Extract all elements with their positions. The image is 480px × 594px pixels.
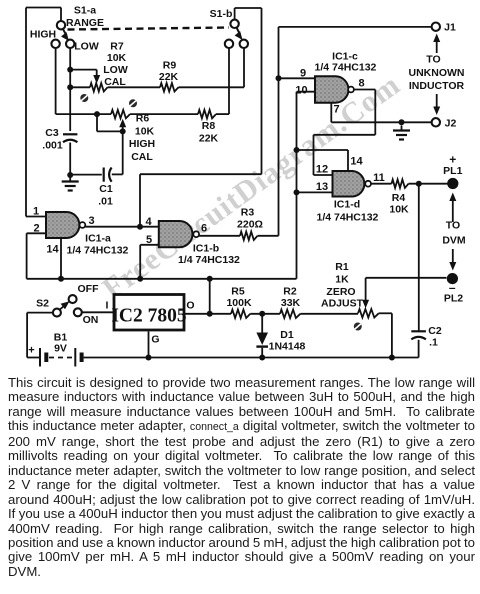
- wire: [314, 90, 376, 176]
- wire: [148, 332, 150, 358]
- wire: [418, 184, 420, 331]
- diode D1: [256, 333, 268, 347]
- label PL1: [443, 165, 462, 177]
- resistor R7: [90, 83, 108, 91]
- svg-text:1/4 74HC132: 1/4 74HC132: [315, 62, 377, 74]
- label R7: [110, 41, 124, 53]
- svg-text:R2: R2: [283, 286, 297, 298]
- R7 wiper: [70, 70, 100, 84]
- pin O label: [186, 300, 194, 312]
- node: [67, 67, 73, 73]
- svg-text:10K: 10K: [135, 126, 155, 138]
- wire: [409, 183, 448, 185]
- wire: [184, 313, 231, 315]
- svg-text:C1: C1: [99, 183, 113, 195]
- label TO UNKNOWN INDUCTOR: [409, 54, 465, 93]
- ground: [62, 177, 79, 191]
- wire ground rail: [85, 357, 418, 359]
- svg-text:OFF: OFF: [78, 283, 100, 295]
- wire: [250, 313, 280, 315]
- label TO DVM: [442, 220, 466, 247]
- svg-text:PL2: PL2: [444, 293, 463, 305]
- svg-text:IC1-b: IC1-b: [193, 243, 219, 255]
- svg-text:J2: J2: [445, 118, 457, 130]
- capacitor C2: [411, 331, 426, 339]
- svg-text:CAL: CAL: [131, 151, 153, 163]
- svg-text:33K: 33K: [281, 297, 301, 309]
- wire: [216, 48, 229, 114]
- svg-text:HIGH: HIGH: [30, 29, 56, 41]
- wire: [209, 279, 211, 314]
- pin G label: [151, 334, 159, 346]
- wire: [139, 245, 141, 279]
- switch S1-b: [230, 20, 242, 40]
- label C2 value: [429, 337, 438, 349]
- svg-text:S2: S2: [36, 298, 49, 310]
- label S1-b: [210, 8, 233, 20]
- R1 wiper: [362, 278, 446, 309]
- label C3: [45, 127, 59, 139]
- label IC1-a: [85, 233, 111, 245]
- node: [137, 276, 143, 282]
- svg-text:1/4 74HC132: 1/4 74HC132: [178, 254, 240, 266]
- label LOW: [74, 41, 99, 53]
- wire: [70, 70, 90, 88]
- label IC1-d: [334, 199, 360, 211]
- node S1-b right contact: [240, 40, 248, 48]
- label R5 value: [226, 297, 252, 309]
- svg-text:8: 8: [358, 78, 364, 90]
- svg-text:IC1-a: IC1-a: [85, 233, 111, 245]
- label J1: [444, 22, 456, 34]
- svg-text:.1: .1: [429, 337, 438, 349]
- svg-text:11: 11: [373, 172, 385, 184]
- svg-text:6: 6: [201, 223, 207, 235]
- svg-text:RANGE: RANGE: [66, 17, 104, 29]
- svg-text:12: 12: [316, 164, 328, 176]
- gate IC1-c: [315, 76, 354, 102]
- pin 1: [26, 206, 46, 218]
- wire: [69, 48, 71, 70]
- regulator IC2 7805: [111, 295, 187, 331]
- node ON contact: [74, 308, 82, 316]
- resistor R1: [358, 309, 379, 317]
- svg-text:ZERO: ZERO: [326, 286, 355, 298]
- trimmer screw R6: [129, 99, 137, 107]
- node OFF contact: [69, 295, 77, 303]
- arrow to J1: [433, 34, 440, 54]
- label J2: [445, 118, 457, 130]
- svg-text:1/4 74HC132: 1/4 74HC132: [67, 245, 129, 257]
- label IC1-a part: [67, 245, 129, 257]
- connector J1: [432, 23, 440, 31]
- svg-text:220Ω: 220Ω: [237, 219, 263, 231]
- label R8 value: [199, 133, 219, 145]
- svg-text:R1: R1: [335, 261, 349, 273]
- terminal PL1: [447, 178, 458, 189]
- svg-text:7: 7: [333, 104, 339, 116]
- gate IC1-a: [46, 212, 85, 238]
- trimmer screw R7: [80, 94, 88, 102]
- svg-text:R6: R6: [136, 113, 150, 125]
- trimmer screw R1: [354, 323, 362, 331]
- pin 8 output: [354, 78, 375, 90]
- node: [58, 276, 64, 282]
- svg-text:14: 14: [46, 244, 59, 256]
- svg-text:LOW: LOW: [74, 41, 99, 53]
- svg-text:TO: TO: [426, 54, 440, 66]
- svg-text:9: 9: [300, 68, 306, 80]
- wire: [235, 8, 262, 174]
- label R6: [136, 113, 150, 125]
- svg-text:1/4 74HC132: 1/4 74HC132: [317, 212, 379, 224]
- svg-text:R9: R9: [163, 60, 177, 72]
- svg-text:IC1-d: IC1-d: [334, 199, 360, 211]
- label S1-a: [74, 5, 96, 17]
- pin 14: [46, 238, 61, 279]
- svg-text:C2: C2: [428, 325, 442, 337]
- svg-text:I: I: [106, 300, 109, 312]
- svg-text:.01: .01: [98, 196, 113, 208]
- pin 5: [140, 234, 159, 246]
- capacitor C3: [63, 134, 77, 142]
- label IC1-c part: [315, 62, 377, 74]
- pin 11 output: [371, 172, 392, 184]
- label R3 value: [237, 219, 263, 231]
- svg-text:G: G: [151, 334, 159, 346]
- label R4 value: [389, 204, 409, 216]
- label C1 value: [98, 196, 113, 208]
- resistor R5: [231, 310, 250, 318]
- label RANGE: [66, 17, 104, 29]
- wire: [300, 313, 358, 315]
- svg-text:14: 14: [350, 156, 363, 168]
- wire: [258, 27, 279, 236]
- label R3: [241, 207, 255, 219]
- svg-text:R7: R7: [110, 41, 124, 53]
- label R9 value: [159, 71, 179, 83]
- label R5: [231, 286, 245, 298]
- pin 6 output: [199, 223, 240, 236]
- label IC1-d part: [317, 212, 379, 224]
- terminal PL2: [447, 273, 458, 284]
- label PL2: [444, 293, 463, 305]
- label R9: [163, 60, 177, 72]
- label C2: [428, 325, 442, 337]
- wire dashed S1 gang link: [68, 28, 230, 30]
- wire: [140, 174, 262, 227]
- resistor R8: [198, 110, 216, 118]
- label R1: [335, 261, 349, 273]
- wire: [70, 174, 102, 176]
- pin 4: [145, 216, 152, 228]
- label C1: [99, 183, 113, 195]
- wire: [82, 311, 114, 313]
- wire: [112, 131, 123, 174]
- R6 wiper: [97, 114, 126, 134]
- switch S2: [53, 301, 70, 316]
- svg-text:S1-b: S1-b: [210, 8, 233, 20]
- svg-text:R4: R4: [392, 192, 406, 204]
- node LOW contact: [66, 40, 74, 48]
- node: [67, 172, 73, 178]
- label IC1-b part: [178, 254, 240, 266]
- label B1 value: [54, 343, 67, 355]
- svg-text:+: +: [28, 345, 34, 357]
- pin 13: [297, 181, 333, 193]
- node S1-b left contact: [225, 40, 233, 48]
- node: [389, 355, 395, 361]
- wire: [379, 313, 392, 357]
- svg-text:22K: 22K: [199, 133, 219, 145]
- label C3 value: [42, 140, 63, 152]
- wire: [27, 313, 53, 358]
- svg-text:LOW: LOW: [103, 64, 128, 76]
- label R2 value: [281, 297, 301, 309]
- wire: [69, 143, 71, 176]
- svg-text:10K: 10K: [389, 204, 409, 216]
- battery B1: [27, 348, 85, 367]
- svg-text:S1-a: S1-a: [74, 5, 96, 17]
- wire: [296, 92, 298, 279]
- wire +5V rail: [27, 278, 297, 280]
- svg-text:INDUCTOR: INDUCTOR: [409, 80, 465, 92]
- pin 3 output: [85, 215, 159, 227]
- svg-text:R5: R5: [231, 286, 245, 298]
- node: [207, 276, 213, 282]
- pin I label: [106, 300, 109, 312]
- arrow to J2: [433, 94, 440, 115]
- pin 12: [314, 164, 333, 176]
- node: [294, 147, 300, 153]
- node HIGH contact: [51, 40, 59, 48]
- wire: [108, 86, 161, 88]
- node: [137, 224, 143, 230]
- wire: [418, 340, 419, 358]
- svg-text:PL1: PL1: [443, 165, 462, 177]
- svg-text:R8: R8: [202, 120, 216, 132]
- node: [94, 111, 100, 117]
- svg-text:1: 1: [33, 206, 39, 218]
- label IC1-c: [332, 51, 358, 63]
- svg-text:3: 3: [88, 215, 94, 227]
- label R6 value: [135, 126, 155, 138]
- svg-text:9V: 9V: [54, 343, 67, 355]
- pin 14: [297, 150, 364, 171]
- label S2: [36, 298, 49, 310]
- svg-text:1K: 1K: [335, 274, 349, 286]
- label R7 value: [107, 52, 127, 64]
- label HIGH: [30, 29, 56, 41]
- node: [276, 75, 282, 81]
- svg-text:10K: 10K: [107, 52, 127, 64]
- svg-text:DVM: DVM: [442, 235, 466, 247]
- wire: [261, 348, 263, 358]
- svg-text:O: O: [186, 300, 194, 312]
- svg-text:ON: ON: [83, 314, 99, 326]
- node: [399, 119, 405, 125]
- wire: [26, 233, 28, 278]
- node: [259, 355, 265, 361]
- label R8: [202, 120, 216, 132]
- resistor R4: [392, 180, 409, 188]
- capacitor C1: [104, 168, 112, 182]
- wire: [69, 87, 71, 131]
- arrow to PL1: [449, 193, 456, 223]
- arrow to PL2: [449, 249, 456, 271]
- svg-text:.001: .001: [42, 140, 63, 152]
- svg-text:CAL: CAL: [104, 76, 126, 88]
- connector J2: [432, 118, 440, 126]
- wire: [56, 48, 111, 114]
- label D1: [280, 329, 294, 341]
- wire: [179, 48, 245, 87]
- svg-text:ADJUST: ADJUST: [321, 298, 364, 310]
- gate IC1-d: [333, 171, 372, 197]
- label B1: [54, 332, 68, 344]
- label R6 HIGH CAL: [129, 138, 155, 163]
- pin 2: [27, 223, 46, 235]
- svg-text:HIGH: HIGH: [129, 138, 155, 150]
- svg-text:UNKNOWN: UNKNOWN: [409, 67, 465, 79]
- resistor R6: [111, 110, 130, 118]
- svg-text:D1: D1: [280, 329, 294, 341]
- node: [207, 311, 213, 317]
- wire: [331, 121, 431, 123]
- svg-text:5: 5: [146, 234, 152, 246]
- svg-text:J1: J1: [444, 22, 456, 34]
- label B1 plus: [28, 345, 34, 357]
- svg-text:IC2 7805: IC2 7805: [111, 306, 187, 327]
- ground: [393, 126, 410, 140]
- gate IC1-b: [159, 221, 199, 247]
- svg-text:100K: 100K: [226, 297, 252, 309]
- label R1 ZERO ADJUST: [321, 286, 364, 310]
- label PL2 minus: [449, 281, 456, 295]
- label ON: [83, 314, 99, 326]
- svg-text:2: 2: [33, 223, 39, 235]
- wire: [26, 8, 61, 217]
- switch S1-a: [57, 21, 69, 41]
- pin 9: [279, 68, 316, 80]
- wire: [261, 314, 263, 333]
- node: [416, 181, 422, 187]
- svg-text:1N4148: 1N4148: [269, 341, 306, 353]
- node: [259, 311, 265, 317]
- pin 7: [331, 103, 339, 122]
- node: [67, 84, 73, 90]
- label R4: [392, 192, 406, 204]
- node: [146, 355, 152, 361]
- wire: [279, 26, 432, 28]
- resistor R2: [280, 310, 300, 318]
- svg-text:4: 4: [145, 216, 152, 228]
- label R2: [283, 286, 297, 298]
- svg-text:C3: C3: [45, 127, 59, 139]
- node: [294, 189, 300, 195]
- resistor R3: [240, 232, 258, 240]
- svg-text:R3: R3: [241, 207, 255, 219]
- label D1 value: [269, 341, 306, 353]
- label OFF: [78, 283, 100, 295]
- label IC1-b: [193, 243, 219, 255]
- label R7 LOW CAL: [103, 64, 128, 88]
- resistor R9: [160, 83, 179, 91]
- svg-text:22K: 22K: [159, 71, 179, 83]
- label PL1 plus: [449, 153, 456, 167]
- svg-text:13: 13: [316, 181, 328, 193]
- watermark: [96, 67, 406, 305]
- pin 10: [295, 85, 315, 97]
- label R1 value: [335, 274, 349, 286]
- wire: [130, 113, 198, 115]
